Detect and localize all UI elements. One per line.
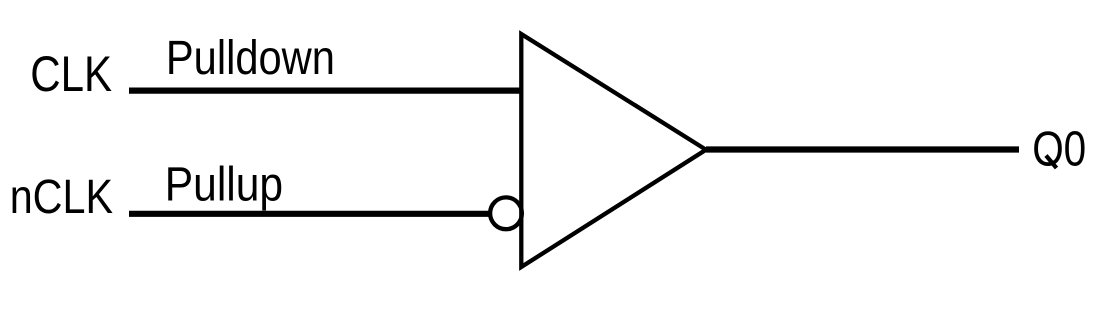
- inversion bubble: [490, 197, 522, 229]
- svg-text:O0: O0: [1032, 122, 1086, 176]
- svg-text:CLK: CLK: [30, 46, 112, 102]
- svg-text:Pullup: Pullup: [165, 159, 283, 212]
- wire CLK input: [129, 87, 523, 93]
- svg-text:Pulldown: Pulldown: [166, 32, 335, 85]
- Q tail stroke: [1046, 156, 1057, 169]
- svg-text:nCLK: nCLK: [10, 171, 113, 224]
- wire nCLK input: [129, 211, 490, 217]
- wire Q0 output: [706, 146, 1019, 152]
- buffer U1 triangle: [521, 34, 706, 267]
